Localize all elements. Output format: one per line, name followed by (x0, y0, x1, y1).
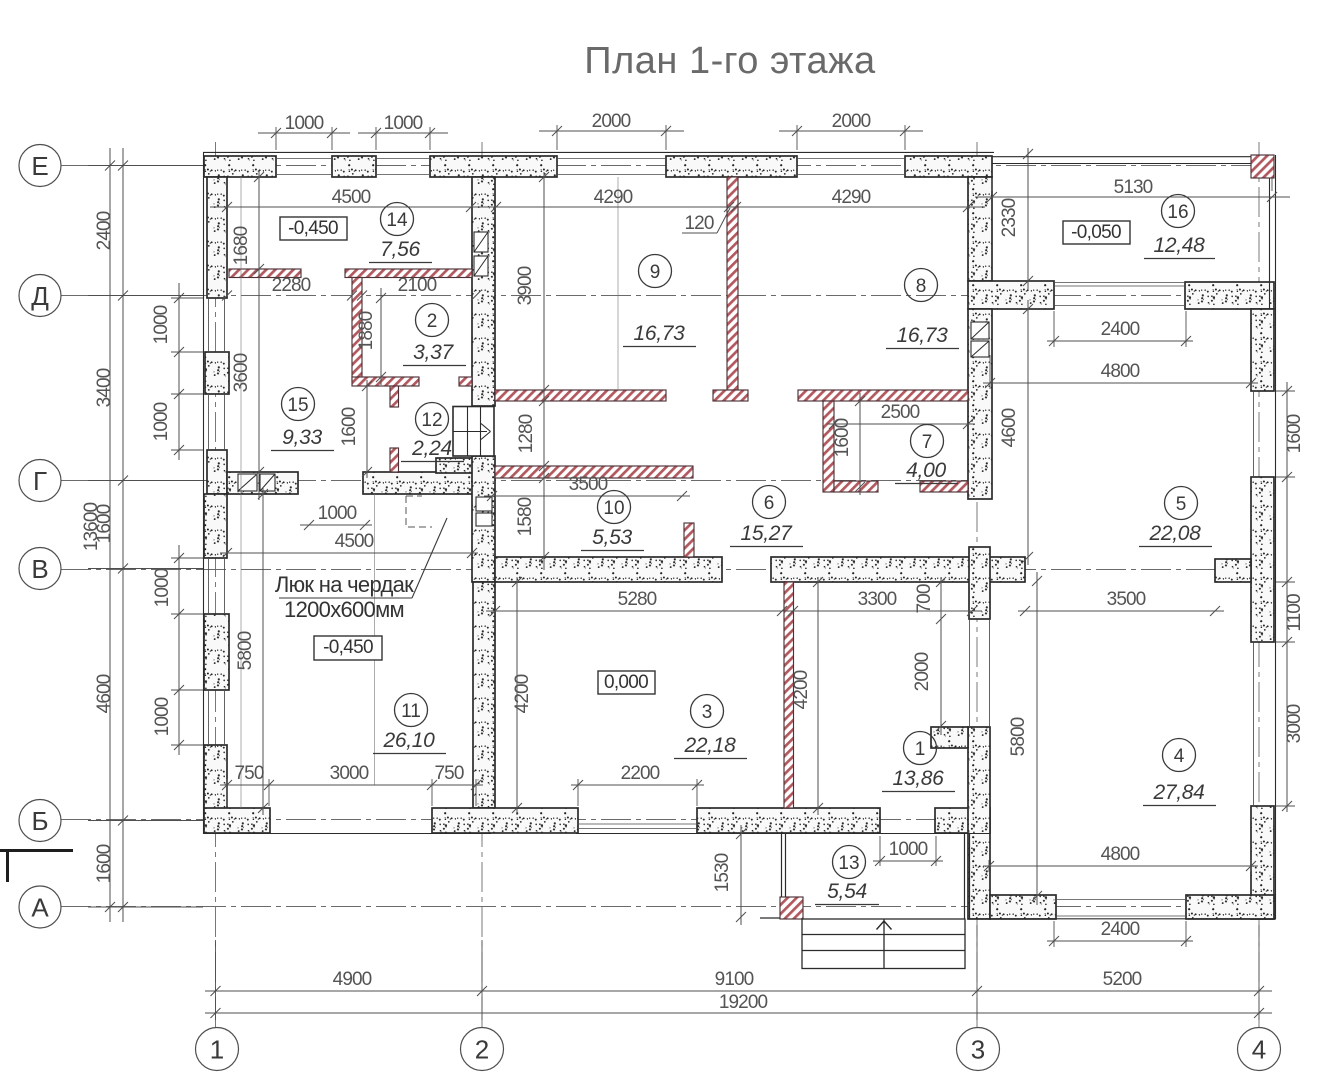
svg-text:7,56: 7,56 (380, 238, 420, 261)
partition: rooms 9/8 divider (120 wall) (727, 177, 738, 390)
attic ladder box in axis-2 wall (453, 407, 494, 457)
wall: exterior right, D to window1 (1251, 309, 1274, 391)
svg-text:2500: 2500 (881, 402, 920, 423)
svg-text:22,18: 22,18 (683, 734, 736, 757)
wall: interior vertical axis 3, E-wall to D (968, 177, 992, 281)
wall: interior vertical on axis 2, E-wall to attic stair (472, 177, 495, 406)
svg-text:-0,050: -0,050 (1071, 222, 1121, 243)
wall: exterior left, segment window2 to G-wall (207, 450, 227, 494)
axis 2 line (481, 142, 483, 1027)
window glazing lines: A-wall window of room 4 (1056, 900, 1186, 917)
construction lines inside rooms (241, 177, 618, 808)
wall: interior axis 3, jut along D to room 16 window (968, 281, 1054, 309)
svg-text:16,73: 16,73 (896, 324, 948, 347)
dim ticks: 2280/2100 on axis D (222, 291, 481, 301)
dim line: left axis chain (118, 148, 128, 922)
attic hatch dashed outline (406, 496, 432, 527)
svg-text:15,27: 15,27 (740, 522, 793, 545)
svg-text:2100: 2100 (398, 275, 437, 296)
svg-text:-0,450: -0,450 (288, 218, 338, 239)
svg-text:3400: 3400 (94, 368, 115, 407)
svg-text:27,84: 27,84 (1152, 781, 1204, 804)
wall: interior axis 3, jut left at room 1/13 (931, 727, 968, 748)
dim line: left wall windows lower (174, 545, 184, 755)
svg-text:Люк на чердак: Люк на чердак (275, 572, 414, 597)
room 12 label (401, 403, 464, 462)
svg-text:Б: Б (31, 806, 48, 836)
svg-text:3: 3 (702, 702, 713, 723)
svg-text:1000: 1000 (151, 305, 172, 344)
svg-text:2400: 2400 (1101, 919, 1140, 940)
svg-text:3000: 3000 (1284, 704, 1305, 743)
window glazing lines: top wall windows (276, 158, 905, 160)
svg-text:1: 1 (210, 1035, 224, 1065)
dim line: 2400 room 16 window (1047, 336, 1193, 346)
svg-text:22,08: 22,08 (1148, 522, 1201, 545)
svg-text:12,48: 12,48 (1153, 234, 1205, 257)
svg-text:5: 5 (1176, 494, 1187, 515)
wall: exterior left, pier between windows (205, 352, 229, 394)
wall: interior vertical axis 3, door to A-wall corner (968, 727, 990, 919)
svg-text:9,33: 9,33 (282, 426, 322, 449)
svg-text:2200: 2200 (621, 763, 660, 784)
dim line: top 1000 window b (358, 128, 448, 138)
outer face line: top along E (203, 151, 994, 153)
dim line: 1530 porch (736, 825, 746, 925)
svg-text:12: 12 (421, 410, 442, 431)
axis V circle (19, 548, 61, 590)
wall: exterior top along E, right corner segment (905, 156, 992, 177)
room 2 label (403, 304, 466, 366)
svg-text:1000: 1000 (285, 113, 324, 134)
svg-text:3300: 3300 (858, 589, 897, 610)
dim line: bottom chain 4900/9100/5200 (205, 986, 1272, 996)
svg-text:1280: 1280 (516, 414, 537, 453)
dim line: 4500 room 14 (210, 202, 985, 212)
svg-text:2,24: 2,24 (411, 437, 452, 460)
extension lines misc small dims (227, 311, 1251, 947)
wall: exterior left, segment E to window1 (207, 177, 227, 298)
wall: interior along V, corridor segment (495, 557, 722, 582)
room 6 label (730, 486, 803, 547)
svg-text:1680: 1680 (231, 226, 252, 265)
partition: room 2 south door stub at wall (459, 377, 472, 386)
wall: interior vertical axis 3, D to room 7 corner (968, 309, 992, 499)
attic ladder treads and arrow (468, 407, 481, 457)
entrance stairs (802, 919, 965, 969)
partition: porch pillar at A (780, 897, 803, 919)
svg-text:1600: 1600 (1284, 414, 1305, 453)
svg-text:4: 4 (1252, 1035, 1266, 1065)
svg-text:5,53: 5,53 (592, 526, 632, 549)
extension lines left axis dims (88, 166, 203, 908)
svg-text:700: 700 (914, 584, 935, 613)
extension lines left window dims (171, 298, 203, 745)
svg-text:1200х600мм: 1200х600мм (284, 597, 404, 622)
svg-text:3000: 3000 (330, 763, 369, 784)
axis V line (61, 569, 1274, 571)
outer face line: bottom of A wall room 4 (968, 918, 1276, 920)
outer face line: bottom of B wall garage/left (203, 833, 491, 835)
svg-text:5,54: 5,54 (827, 880, 867, 903)
appliance boxes in G-wall near left wall (238, 474, 257, 491)
axis 1 circle (196, 1028, 239, 1071)
partition: 120 wall foot (713, 390, 748, 401)
wall: axis-3 cross vertical stub at V (969, 547, 990, 619)
wall: interior along V, segment rooms 6/1 to axis3 cross (771, 557, 1025, 582)
svg-text:5200: 5200 (1103, 969, 1142, 990)
svg-text:А: А (31, 893, 49, 923)
axis 3 line (976, 142, 978, 1027)
AXES (61, 142, 1274, 1027)
svg-text:1000: 1000 (152, 568, 173, 607)
dim line: left wall windows upper (174, 283, 184, 460)
room 9 label (623, 255, 696, 347)
svg-text:5800: 5800 (235, 631, 256, 670)
dim line: 1600 room 12 (362, 380, 372, 478)
svg-text:4: 4 (1174, 746, 1185, 767)
svg-text:4500: 4500 (335, 531, 374, 552)
terrace edge double line along E at room 16 (992, 157, 1251, 164)
outer face line: bottom of B wall right part (576, 833, 990, 835)
dim line: 3500 corridor 10 (484, 491, 690, 501)
axis B circle (19, 800, 61, 842)
wall: exterior left, segment G to garage window1 (204, 494, 227, 558)
svg-text:750: 750 (234, 763, 263, 784)
flue box in axis-3 wall 1 (971, 322, 989, 339)
svg-text:2000: 2000 (592, 111, 631, 132)
room 10 label (581, 491, 644, 551)
svg-text:4,00: 4,00 (906, 459, 946, 482)
dim line: 1680/3600 room 14/15 (254, 170, 264, 500)
svg-text:1600: 1600 (339, 407, 360, 446)
axis 4 circle (1238, 1028, 1281, 1071)
svg-text:Г: Г (33, 466, 47, 496)
dim line: 3900/1280/1580 (539, 172, 549, 570)
wall: exterior bottom along B, window to door (697, 808, 880, 833)
svg-text:2000: 2000 (832, 111, 871, 132)
chimney block at top-right corner (1251, 155, 1274, 178)
svg-text:1600: 1600 (832, 418, 853, 457)
wall: exterior right, window1 to window2 with V jut (1251, 477, 1274, 642)
flue box in axis-2 wall at G 2 (476, 513, 492, 526)
dim line: 700/2000 near axis 3 (936, 577, 946, 735)
svg-text:4290: 4290 (832, 187, 871, 208)
svg-text:0,000: 0,000 (604, 672, 648, 693)
svg-text:4600: 4600 (94, 674, 115, 713)
leader for 120 (682, 208, 730, 233)
dim line: 4800 room 4 (983, 861, 1258, 871)
svg-text:1000: 1000 (384, 113, 423, 134)
extension lines bottom axes (216, 925, 1260, 1020)
svg-text:Е: Е (31, 151, 48, 181)
window glazing lines: D-wall window of room 16 (1054, 283, 1185, 306)
corner mark at left edge (0, 850, 73, 882)
svg-text:В: В (31, 554, 48, 584)
svg-text:4500: 4500 (332, 187, 371, 208)
entrance arrow up (877, 921, 892, 930)
svg-text:1000: 1000 (151, 402, 172, 441)
svg-text:16,73: 16,73 (633, 322, 685, 345)
partition: corridor 10 north (along G) (495, 466, 693, 478)
note: attic hatch text with leader (275, 518, 447, 622)
axis D line (61, 295, 1274, 297)
dim line: 5800 garage (258, 487, 268, 815)
room 11 label (373, 694, 446, 754)
outer face line: right wall full height (1275, 155, 1277, 920)
outer face line: left wall (203, 152, 205, 834)
axis G circle (19, 460, 61, 502)
svg-text:1000: 1000 (152, 697, 173, 736)
wall: exterior right, jut at V (1215, 559, 1251, 582)
wall: exterior bottom along B, garage right pier to window (432, 808, 578, 833)
axis A line (61, 906, 1274, 908)
axis 4 line (1258, 142, 1260, 1027)
wall: interior along G, left segment with left wall corner (227, 472, 298, 494)
room 14 label (369, 203, 432, 263)
window glazing lines: B-wall window of room 3 (578, 824, 697, 829)
partition: room 14 south / room 2 north (345, 269, 472, 278)
axis 3 circle (957, 1028, 1000, 1071)
extension lines top windows (276, 125, 1272, 191)
svg-text:5800: 5800 (1008, 717, 1029, 756)
flue box in axis-3 wall 2 (971, 341, 989, 357)
svg-text:1880: 1880 (356, 311, 377, 350)
dim line: 4800 room 16 (983, 378, 1258, 388)
partition: room 7 south left piece (834, 481, 878, 492)
wall: exterior right, segment to corner A (1251, 806, 1274, 919)
svg-text:3500: 3500 (569, 474, 608, 495)
room 3 label (674, 695, 747, 759)
svg-text:2400: 2400 (1101, 319, 1140, 340)
dim line: 4200 room 3 (512, 577, 522, 815)
svg-text:9100: 9100 (715, 969, 754, 990)
dim line: top 1000 window a (258, 128, 350, 138)
axis E circle (19, 145, 61, 187)
partition: room 2 west vertical (352, 278, 362, 381)
wall: along D right, room 16 east segment (1185, 282, 1274, 309)
window glazing lines: right wall windows (1253, 391, 1255, 806)
level mark -0,450 room 11 (314, 636, 382, 660)
svg-text:7: 7 (922, 432, 933, 453)
axis D circle (19, 275, 61, 317)
dim line: top 2000 window a (539, 126, 684, 136)
svg-text:2330: 2330 (999, 198, 1020, 237)
svg-text:5130: 5130 (1114, 177, 1153, 198)
svg-text:5280: 5280 (618, 589, 657, 610)
svg-text:8: 8 (916, 276, 927, 297)
wall: exterior bottom along A, window to corner axis 4 (1186, 895, 1274, 919)
dim line: right 1600/1100/3000 (1282, 382, 1292, 812)
dim line: 2400 room 4 window (1047, 936, 1193, 946)
partition: room 7 west (823, 401, 834, 492)
svg-text:11: 11 (401, 701, 421, 722)
room 16 label (1144, 195, 1215, 259)
partition: rooms 9/6 divider south of room 9 (495, 390, 666, 401)
partition: room 2 south (352, 377, 419, 386)
svg-text:-0,450: -0,450 (323, 637, 373, 658)
svg-text:13: 13 (838, 853, 859, 874)
svg-text:4290: 4290 (594, 187, 633, 208)
svg-text:1000: 1000 (889, 839, 928, 860)
dim line: 5800 room 4 (1032, 572, 1042, 905)
room 7 label (895, 425, 958, 484)
partition: rooms 3/1 divider (784, 582, 794, 808)
svg-text:2000: 2000 (912, 652, 933, 691)
partition: room 7 north (798, 390, 968, 401)
svg-text:9: 9 (650, 262, 661, 283)
dim line: 1000 porch door (873, 856, 943, 866)
dim line: 4500 room 11 (220, 548, 478, 558)
svg-text:3,37: 3,37 (413, 341, 454, 364)
wall: exterior bottom along B, door to axis-3 corner (935, 808, 990, 833)
svg-text:2: 2 (427, 311, 438, 332)
dim line: 4200 room 1 (813, 577, 823, 815)
svg-text:2280: 2280 (272, 275, 311, 296)
svg-text:1100: 1100 (1284, 594, 1305, 632)
partition: room 12 west lower stub (390, 448, 399, 472)
wall: exterior left, pier between garage windows (204, 614, 229, 690)
wall: interior vertical on axis 2, V-wall to B-wall (garage east) (473, 582, 495, 808)
svg-text:1600: 1600 (94, 504, 115, 543)
dim line: 750/3000/750 garage (220, 780, 483, 790)
wall: exterior bottom along A, corner to window (990, 895, 1056, 919)
wall: exterior top along E, pier between 1000-windows (332, 156, 376, 177)
axis 1 line (215, 142, 217, 1027)
dim line: 3500 room 5 (1018, 606, 1224, 616)
svg-text:4200: 4200 (791, 670, 812, 709)
axis B line (61, 819, 992, 821)
partition: rooms 14/15 divider left segment (229, 269, 301, 278)
svg-text:Д: Д (31, 281, 49, 311)
dim line: left overall 13600 (105, 148, 115, 922)
wall: exterior top along E, pier window2 to window3 (430, 156, 557, 177)
svg-text:14: 14 (386, 210, 408, 231)
room 8 label (886, 269, 959, 349)
svg-text:16: 16 (1167, 202, 1188, 223)
svg-text:15: 15 (287, 395, 308, 416)
door opening lines: axis-3 wall door rooms 1-4 (970, 620, 990, 727)
window glazing lines: left wall windows (209, 298, 225, 450)
svg-text:1: 1 (915, 739, 926, 760)
svg-text:1000: 1000 (318, 503, 357, 524)
flue box diagonals (238, 232, 989, 491)
dim line: bottom overall 19200 (205, 1008, 1272, 1018)
svg-text:2: 2 (475, 1035, 489, 1065)
axis A circle (19, 886, 61, 928)
svg-text:4900: 4900 (333, 969, 372, 990)
room 4 label (1143, 739, 1216, 806)
wall: interior along G, right segment to stair wall (363, 472, 473, 494)
dim line: 5280/3300 below V (486, 606, 982, 616)
svg-text:3600: 3600 (231, 353, 252, 392)
room 15 label (271, 388, 334, 451)
dim line: 2500 room 7 (827, 419, 975, 429)
svg-text:26,10: 26,10 (382, 729, 435, 752)
dim line: 1880 room 2 (376, 288, 386, 385)
flue box in axis-2 wall at G 1 (476, 497, 492, 511)
dim line: top 2000 window b (779, 126, 923, 136)
wall: interior along G, door jamb step (436, 458, 473, 473)
svg-text:3900: 3900 (515, 266, 536, 305)
svg-text:4800: 4800 (1101, 844, 1140, 865)
svg-text:1530: 1530 (712, 853, 733, 892)
wall: interior vertical on axis 2, stair to V-wall (472, 456, 495, 582)
wall: exterior left, segment to corner B (204, 745, 227, 833)
partition: corridor 10 east stub to V-wall (684, 523, 694, 557)
flue box in axis-2 wall upper 2 (474, 256, 488, 276)
axis 2 circle (461, 1028, 504, 1071)
svg-text:4600: 4600 (999, 408, 1020, 447)
svg-text:3: 3 (971, 1035, 985, 1065)
svg-text:19200: 19200 (719, 992, 768, 1013)
room 1 label (882, 732, 955, 792)
extension lines right dims (1276, 391, 1295, 806)
partition: room 7 south right piece (920, 481, 968, 492)
level mark -0,450 room 14 (280, 217, 347, 240)
dim line: 4600 room 5 (1023, 300, 1033, 565)
svg-text:10: 10 (603, 498, 624, 519)
room 13 label (815, 846, 879, 905)
svg-text:4200: 4200 (512, 674, 533, 713)
svg-text:3500: 3500 (1107, 589, 1146, 610)
svg-text:4800: 4800 (1101, 361, 1140, 382)
dim line: 2200 room 3 window (571, 780, 704, 790)
wall: exterior top along E, pier between 2000-windows (666, 156, 797, 177)
svg-text:2400: 2400 (94, 211, 115, 250)
dim line: 5130 room 16 (975, 192, 1290, 202)
axis G line (61, 480, 995, 482)
level mark 0,000 room 3 (598, 671, 655, 694)
dim line: 1000 door room 11 (300, 520, 372, 530)
svg-text:750: 750 (434, 763, 463, 784)
svg-text:6: 6 (764, 493, 775, 514)
svg-text:120: 120 (684, 213, 713, 234)
wall: exterior bottom along B, garage left pier and corner (204, 808, 270, 833)
axis E line (61, 165, 1272, 167)
svg-text:13,86: 13,86 (892, 767, 944, 790)
wall: exterior top along E, segment corner-to-window1 (204, 156, 276, 177)
svg-text:1580: 1580 (515, 497, 536, 536)
level mark -0,050 room 16 (1063, 221, 1130, 244)
svg-text:1600: 1600 (94, 844, 115, 883)
porch walls thin lines (760, 833, 970, 919)
partition: room 12 west T-stem (390, 386, 399, 407)
svg-text:План 1-го этажа: План 1-го этажа (584, 40, 876, 82)
dim line: 2330 (1023, 148, 1033, 290)
flue box in axis-2 wall upper 1 (474, 232, 488, 252)
dim line: 1600 room 7 (855, 393, 865, 495)
room 5 label (1139, 487, 1212, 547)
